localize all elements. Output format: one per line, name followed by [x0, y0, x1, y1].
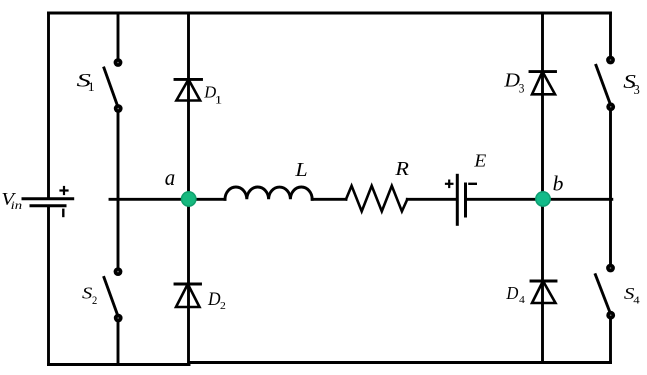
- switch S1 terminal dots: [114, 58, 123, 113]
- battery Vin: [23, 187, 73, 216]
- svg-text:1: 1: [88, 80, 95, 94]
- svg-text:2: 2: [92, 293, 97, 307]
- wire D3-D4 leg: [541, 13, 544, 363]
- wire S leg bottom: [117, 318, 120, 365]
- wire inductor to resistor: [312, 198, 346, 201]
- wire E to node b: [467, 198, 543, 201]
- svg-text:in: in: [11, 198, 22, 212]
- svg-text:E: E: [473, 151, 486, 171]
- diode D4: [531, 281, 556, 303]
- switch S3: [596, 65, 611, 105]
- wire left rail upper: [47, 13, 50, 198]
- wire right leg top: [609, 13, 612, 57]
- inductor L: [225, 187, 312, 199]
- switch S1: [104, 68, 118, 108]
- svg-text:R: R: [394, 159, 409, 180]
- diode D1: [175, 79, 202, 100]
- wire S leg middle: [117, 109, 120, 272]
- wire right leg middle: [609, 108, 612, 269]
- svg-text:D: D: [207, 289, 221, 310]
- diode D2: [175, 284, 201, 307]
- wire S leg top: [117, 13, 120, 60]
- svg-text:D: D: [505, 283, 518, 303]
- switch S4 terminal dots: [606, 264, 615, 320]
- switch S2: [104, 278, 118, 318]
- switch S2 terminal dots: [114, 267, 123, 322]
- wire bottom rail left: [49, 363, 190, 366]
- wire node a to inductor: [189, 198, 226, 201]
- wire left rail lower: [47, 206, 50, 365]
- switch S4: [595, 275, 610, 315]
- svg-text:4: 4: [633, 294, 640, 306]
- wire D1-D2 leg: [187, 13, 190, 365]
- svg-text:2: 2: [220, 300, 226, 312]
- svg-text:1: 1: [215, 92, 223, 106]
- switch S3 terminal dots: [606, 56, 615, 112]
- resistor R: [346, 186, 407, 212]
- svg-text:a: a: [165, 165, 175, 190]
- wire mid left stub: [110, 198, 189, 201]
- node b: [536, 192, 550, 206]
- node a: [182, 192, 196, 206]
- source E: [446, 175, 476, 224]
- wire resistor to E: [407, 198, 456, 201]
- diode D3: [530, 72, 556, 95]
- wire top rail: [49, 12, 611, 15]
- wire node b to right leg: [543, 198, 612, 201]
- svg-text:b: b: [553, 172, 564, 196]
- wire right leg bottom: [609, 316, 612, 363]
- svg-text:L: L: [294, 159, 307, 181]
- svg-text:D: D: [503, 70, 520, 92]
- svg-text:4: 4: [519, 294, 525, 306]
- svg-text:3: 3: [634, 82, 641, 97]
- svg-text:3: 3: [519, 80, 525, 95]
- wire bottom rail right: [189, 361, 611, 364]
